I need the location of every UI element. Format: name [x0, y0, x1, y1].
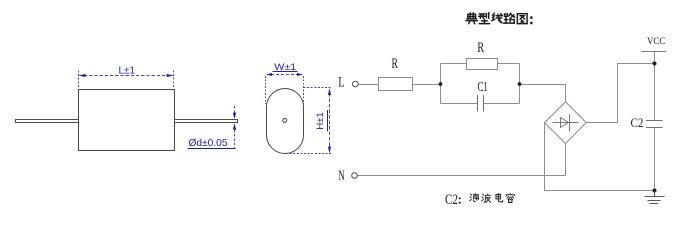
wire bottom branch left: [441, 103, 478, 105]
caption 滤波电容 (drawn glyphs): [459, 193, 515, 203]
dimension L±1 lines: [79, 71, 174, 89]
dimension W±1 arrows: [266, 73, 272, 76]
dimension Ød±0.05 arrows: [233, 113, 236, 120]
bridge rectifier diamond: [545, 102, 587, 144]
svg-text:R: R: [477, 40, 484, 56]
node A junction dot: [439, 82, 443, 86]
wire bridge bottom corner to N line: [565, 144, 567, 176]
wire R1 to node A: [413, 84, 441, 86]
right lead: [175, 120, 238, 123]
dimension Ød±0.05 underline: [188, 148, 236, 150]
dimension H±1 lines: [286, 88, 332, 154]
wire bridge left corner down to ground rail: [545, 123, 655, 191]
dimension H±1 arrows: [328, 88, 331, 95]
wire C2 bottom plate to ground rail: [654, 128, 656, 191]
node VCC junction dot: [653, 62, 657, 66]
terminal N circle: [352, 173, 358, 179]
wire VCC rail down through node to C2 top plate: [654, 52, 656, 121]
wire right branch vertical: [519, 64, 521, 104]
svg-text:Ød±0.05: Ød±0.05: [189, 137, 228, 149]
svg-text:C2: C2: [631, 115, 644, 130]
capacitor body outline: [79, 90, 175, 151]
lead cross-section dot: [283, 119, 287, 123]
wire bottom branch right: [484, 103, 520, 105]
dimension W±1 underline: [273, 71, 298, 73]
wire left branch vertical: [440, 64, 442, 104]
title 典型线路图： (drawn glyphs): [466, 13, 533, 25]
dimension L±1 arrows: [79, 74, 86, 77]
svg-text:R: R: [392, 56, 399, 72]
ground symbol: [645, 191, 665, 204]
svg-text:N: N: [338, 168, 345, 184]
node B junction dot: [518, 82, 522, 86]
svg-text:L: L: [338, 75, 344, 91]
wire node B to bridge top corner: [520, 85, 566, 103]
svg-text:C2: C2: [445, 192, 458, 208]
svg-text:VCC: VCC: [647, 37, 665, 47]
node ground junction dot: [653, 189, 657, 193]
left lead: [16, 120, 79, 123]
svg-text:H±1: H±1: [315, 112, 326, 129]
wire bridge right corner to VCC node: [586, 64, 655, 123]
diode inside bridge: [553, 114, 579, 131]
dimension H±1 underline (rotated): [327, 110, 329, 132]
wire R2 to right branch: [498, 63, 520, 65]
resistor R1 box: [379, 78, 413, 91]
wire L to R1: [358, 84, 378, 86]
svg-text:C1: C1: [478, 80, 488, 95]
capacitor C2 plates: [646, 121, 663, 128]
resistor R2 box: [467, 59, 498, 70]
capacitor C1 plates: [478, 95, 484, 112]
svg-text:L±1: L±1: [119, 65, 136, 77]
VCC rail: [642, 51, 667, 53]
wire top branch to R2: [441, 63, 467, 65]
dimension Ød±0.05 lines: [234, 106, 236, 148]
terminal L circle: [353, 81, 359, 87]
oval body cross-section: [267, 89, 304, 154]
wire N to bridge bottom: [357, 175, 565, 177]
dimension W±1 lines: [266, 75, 304, 105]
